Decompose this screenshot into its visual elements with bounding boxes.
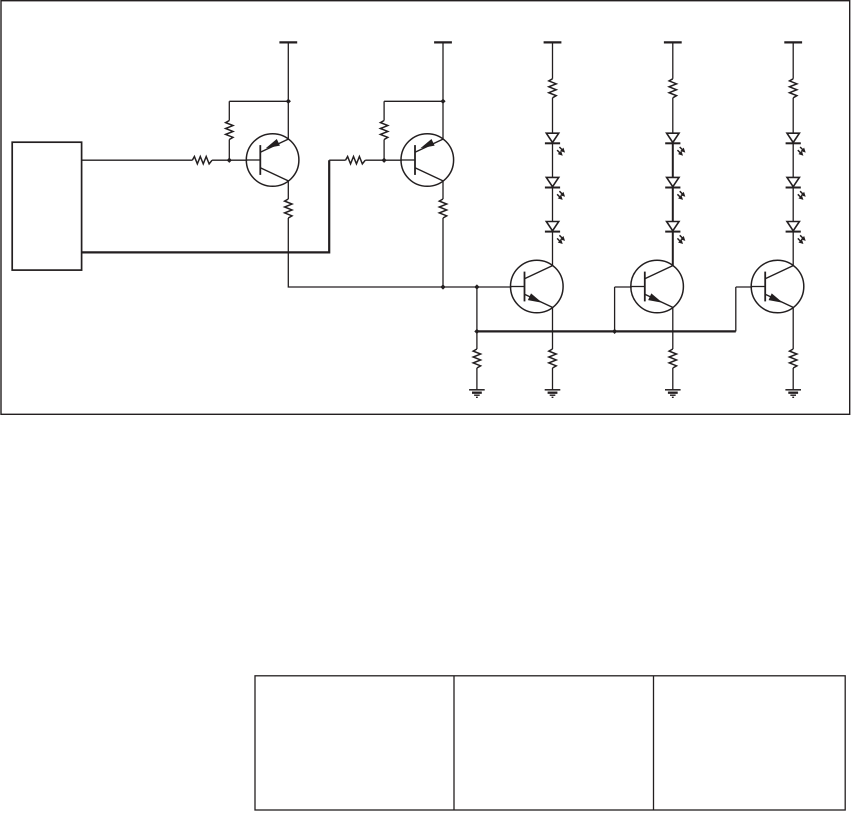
LED D6 xyxy=(667,222,679,231)
transistor Q1 xyxy=(246,134,299,187)
wire Q2 collector to R6 xyxy=(442,181,444,199)
wire emitter col1 xyxy=(552,307,554,349)
VCC bar 3 xyxy=(544,41,562,43)
LED D7 xyxy=(787,133,799,142)
wire R2 bottom xyxy=(228,140,230,161)
VCC bar 1 xyxy=(279,41,297,43)
wire VCC to Q2 emitter xyxy=(442,42,444,139)
ground 4 xyxy=(785,389,801,391)
wire emitter col3 xyxy=(792,307,794,349)
node B junction xyxy=(286,99,290,103)
node E junction xyxy=(441,285,445,289)
wire LED D9 to collector xyxy=(792,232,794,266)
LED D4 xyxy=(667,133,679,142)
wire to ground 3 xyxy=(672,368,674,390)
transistor Q3 xyxy=(511,260,564,313)
thick wire U1 pin2 to R4 xyxy=(82,160,330,252)
wire R5 bottom xyxy=(383,140,385,161)
wire R10 to ground xyxy=(476,368,478,390)
transistor Q5 xyxy=(751,260,804,313)
wire R6 to base row xyxy=(442,218,444,287)
wire R1 to Q1 base node xyxy=(212,159,247,161)
node H junction xyxy=(612,329,616,333)
wire LED D1 to LED D2 xyxy=(552,143,554,177)
wire R4 to Q2 base node xyxy=(365,159,402,161)
node A junction xyxy=(227,158,231,162)
transistor Q4 xyxy=(631,260,684,313)
wire R2 top xyxy=(228,101,230,120)
resistor R7 xyxy=(549,79,556,98)
wire to ground 4 xyxy=(792,368,794,390)
resistor R8 xyxy=(669,79,676,98)
wire Q4 base xyxy=(615,286,632,288)
thick base bus xyxy=(477,330,736,332)
wire to LED D1 xyxy=(552,98,554,133)
node G junction xyxy=(475,329,479,333)
wire LED D2 to LED D3 xyxy=(552,187,554,221)
wire R3 down and across to Q3 base xyxy=(288,218,511,287)
resistor R13 xyxy=(790,349,797,368)
node C junction xyxy=(382,158,386,162)
wire LED D7 to LED D8 xyxy=(792,143,794,177)
wire Q5 base xyxy=(736,286,752,288)
table xyxy=(255,676,845,810)
resistor R9 xyxy=(790,79,797,98)
node F junction xyxy=(475,285,479,289)
ground 1 xyxy=(469,389,485,391)
wire LED D3 to collector xyxy=(552,232,554,266)
wire to LED D7 xyxy=(792,98,794,133)
wire base row drop xyxy=(476,287,478,331)
VCC bar 2 xyxy=(434,41,452,43)
wire LED D5 to LED D6 xyxy=(672,187,674,221)
wire LED D8 to LED D9 xyxy=(792,187,794,221)
LED D5 xyxy=(667,177,679,186)
wire to ground 2 xyxy=(552,368,554,390)
wire pull-up row stage1 xyxy=(229,100,288,102)
wire corner to R4 xyxy=(329,159,345,161)
wire emitter col2 xyxy=(672,307,674,349)
wire bus riser Q4 xyxy=(614,287,616,331)
wire Q1 collector to R3 xyxy=(287,181,289,199)
node D junction xyxy=(441,99,445,103)
LED D3 xyxy=(546,222,558,231)
VCC bar 5 xyxy=(784,41,802,43)
wire to LED D4 xyxy=(672,98,674,133)
wire VCC to Q1 emitter xyxy=(287,42,289,139)
transistor Q2 xyxy=(401,134,454,187)
wire bus riser Q5 xyxy=(735,287,737,331)
resistor R11 xyxy=(549,349,556,368)
wire VCC col2 xyxy=(672,42,674,78)
resistor R5 xyxy=(380,121,387,140)
resistor R10 xyxy=(473,349,480,368)
wire R5 top xyxy=(383,101,385,120)
resistor R1 xyxy=(192,157,212,164)
resistor R3 xyxy=(285,199,292,218)
resistor R12 xyxy=(669,349,676,368)
resistor R6 xyxy=(439,199,446,218)
ground 3 xyxy=(665,389,681,391)
wire LED D6 to collector xyxy=(672,232,674,266)
LED D9 xyxy=(787,222,799,231)
wire VCC col1 xyxy=(552,42,554,78)
resistor R4 xyxy=(346,157,366,164)
wire U1 pin1 to R1 xyxy=(82,159,193,161)
IC U1 xyxy=(12,142,81,270)
wire VCC col3 xyxy=(792,42,794,78)
LED D1 xyxy=(546,133,558,142)
wire LED D4 to LED D5 xyxy=(672,143,674,177)
VCC bar 4 xyxy=(664,41,682,43)
ground 2 xyxy=(545,389,561,391)
wire pull-up row stage2 xyxy=(384,100,443,102)
LED D2 xyxy=(546,177,558,186)
LED D8 xyxy=(787,177,799,186)
wire bus to R10 xyxy=(476,331,478,349)
resistor R2 xyxy=(226,121,233,140)
